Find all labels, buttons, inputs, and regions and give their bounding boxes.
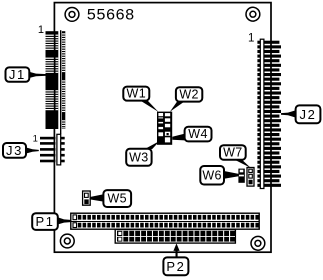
callout J2 label (281, 105, 320, 123)
callout W7 label (220, 145, 251, 168)
callout W2 label (170, 87, 202, 112)
connector J1 (46, 30, 66, 134)
svg-text:J1: J1 (9, 67, 26, 82)
connector P1 (71, 213, 259, 229)
svg-text:W7: W7 (223, 145, 243, 159)
callout W4 label (172, 127, 211, 142)
svg-text:W5: W5 (107, 192, 127, 206)
mounting hole top-right (246, 7, 260, 21)
svg-text:1: 1 (33, 133, 38, 144)
callout J3 label (3, 143, 39, 158)
svg-text:J2: J2 (300, 107, 317, 122)
callout P1 label (32, 213, 70, 230)
jumper block W1/W2/W3/W4 (157, 112, 172, 145)
svg-text:W2: W2 (179, 87, 199, 101)
mounting hole top-left (65, 7, 79, 21)
svg-text:1: 1 (248, 33, 254, 45)
svg-text:W4: W4 (188, 127, 208, 141)
svg-text:55668: 55668 (87, 6, 135, 24)
svg-text:W1: W1 (127, 87, 147, 101)
callout W3 label (126, 141, 160, 166)
connector J3 (40, 134, 65, 165)
svg-text:P2: P2 (166, 259, 185, 274)
callout W5 label (91, 190, 132, 207)
board outline (54, 3, 271, 253)
svg-text:1: 1 (38, 24, 44, 36)
svg-text:J3: J3 (6, 143, 23, 158)
callout W6 label (200, 166, 238, 185)
callout W1 label (123, 87, 158, 112)
mounting hole bottom-left (60, 234, 74, 248)
svg-text:W6: W6 (202, 168, 222, 182)
jumper W5 (83, 191, 91, 205)
svg-text:P1: P1 (35, 214, 54, 229)
jumper W6 (238, 169, 244, 183)
svg-text:W3: W3 (129, 150, 149, 164)
jumper W7 (247, 168, 254, 187)
mounting hole bottom-right (251, 236, 265, 250)
callout J1 label (6, 67, 48, 82)
connector J2 (257, 39, 281, 188)
connector P2 (115, 229, 235, 243)
callout P2 label (163, 243, 188, 275)
